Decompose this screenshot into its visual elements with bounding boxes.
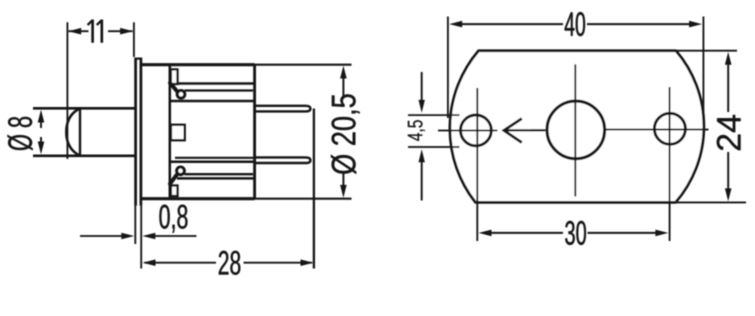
dimension 40 right extension line — [702, 17, 704, 119]
dimension 40 left extension line — [447, 17, 449, 119]
dimension 30 line — [491, 232, 656, 234]
body bottom edge — [140, 197, 255, 200]
right hole — [654, 113, 685, 144]
top rail line 1 — [177, 82, 255, 85]
plunger dome arc — [66, 108, 80, 156]
label 4,5 (rotated) — [408, 120, 425, 141]
bottom rail line 3 — [175, 157, 255, 159]
dimension 11 left extension line — [66, 22, 68, 159]
dimension Ø8 arrow up — [40, 114, 42, 128]
body right edge — [253, 65, 256, 199]
bottom rail line 3b — [170, 161, 255, 164]
dimension 28 arrowheads — [143, 259, 156, 266]
label 0,8 — [159, 205, 187, 233]
label Ø 8 (rotated) — [7, 117, 32, 150]
plunger dome chord — [79, 108, 81, 156]
dimension 0,8 left arrowhead — [121, 233, 134, 240]
dimension 30 arrowheads — [479, 230, 492, 237]
dimension 11 right extension line — [133, 22, 135, 57]
horizontal centerline middle dash — [531, 129, 547, 131]
dimension 0,8 right arrowhead — [142, 233, 155, 240]
top clip tab — [171, 69, 178, 84]
dimension 40 arrowheads — [449, 21, 462, 28]
dimension 11 arrowheads — [68, 28, 81, 35]
body top edge — [141, 63, 255, 66]
bottom clip hook tip — [177, 167, 185, 175]
dimension 28 line — [145, 262, 313, 264]
flange left extension line down — [134, 206, 136, 245]
plunger bottom line — [33, 155, 135, 158]
dimension Ø8 arrow down — [40, 137, 42, 150]
mounting plate outline — [450, 51, 704, 203]
label Ø 20,5 (rotated) — [331, 94, 360, 174]
dimension 24 top stem — [727, 64, 729, 112]
plunger top line — [33, 107, 135, 110]
flange plate left face — [134, 58, 137, 206]
dimension 24 bottom stem — [727, 152, 729, 189]
top terminal blade — [255, 106, 311, 112]
label 11 — [93, 20, 102, 43]
dimension 0,8 right line — [155, 235, 197, 237]
bottom rail line 1 — [177, 177, 255, 180]
label 40 — [565, 12, 585, 36]
label 28 — [219, 251, 240, 275]
dimension 40 line — [462, 23, 690, 25]
top clip spring diagonal — [170, 83, 177, 91]
top clip hook tip — [177, 91, 185, 99]
dimension Ø20,5 top stem — [342, 78, 344, 97]
right hole vertical centerline / 30 extension — [669, 87, 671, 241]
bottom terminal blade — [255, 157, 311, 163]
horizontal centerline right segment — [605, 129, 709, 131]
center hole — [547, 101, 605, 159]
flange right extension line down (28 dim) — [140, 206, 142, 269]
dimension 24 top extension line — [676, 50, 737, 52]
bottom clip tab — [171, 186, 178, 197]
bottom rail line 2 — [185, 173, 254, 175]
dimension 0,8 left line — [80, 235, 122, 237]
bottom clip spring diagonal — [170, 175, 177, 184]
center hole vertical centerline — [574, 64, 576, 196]
inner body left vertical — [169, 65, 172, 199]
top rail line 2 — [185, 89, 254, 91]
dimension 11 line — [69, 30, 133, 32]
right end line / 28 extension — [313, 109, 315, 269]
horizontal centerline left segment — [438, 130, 498, 132]
dimension 4,5 bottom extension line — [408, 146, 460, 148]
left hole — [461, 115, 492, 146]
central tab — [171, 125, 185, 140]
dimension 4,5 top arrow — [421, 72, 423, 101]
body bottom extension line (Ø20,5) — [255, 198, 352, 200]
top rail line 3 — [170, 100, 255, 103]
flange plate right face — [140, 58, 143, 206]
body top extension line (Ø20,5) — [255, 64, 352, 66]
flange top cap — [136, 57, 141, 59]
direction arrow — [504, 119, 522, 143]
dimension 4,5 bottom arrow — [421, 162, 423, 201]
dimension 24 bottom extension line — [676, 201, 747, 203]
dimension 4,5 top extension line — [408, 114, 460, 116]
label 24 (rotated) — [717, 115, 741, 150]
left hole vertical centerline / 30 extension — [476, 88, 478, 241]
dimension Ø20,5 bottom stem — [342, 172, 344, 185]
label 30 — [565, 221, 586, 245]
